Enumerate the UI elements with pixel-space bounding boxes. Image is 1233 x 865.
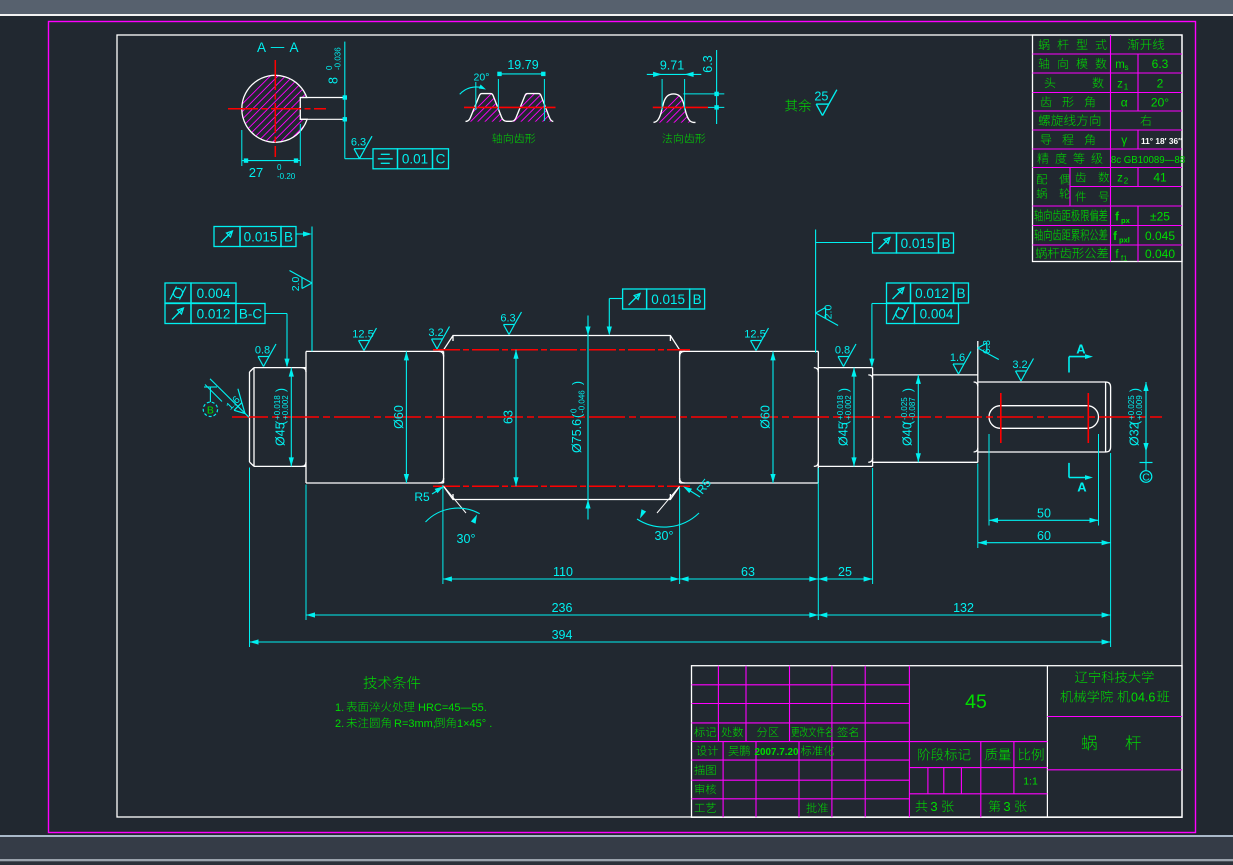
dim 132 (818, 614, 1110, 616)
keyway slot (989, 406, 1099, 429)
svg-text:394: 394 (552, 628, 573, 642)
section mark A bottom (1068, 463, 1070, 478)
dim 9.71 (661, 79, 663, 110)
svg-text:A: A (1077, 480, 1087, 495)
step S1-S2 (305, 351, 307, 483)
svg-text:41: 41 (1153, 171, 1167, 185)
svg-text:0: 0 (277, 163, 282, 172)
surface 0.8 left (255, 344, 276, 367)
dim 63 root (515, 350, 517, 486)
dim Ø75.6 (587, 336, 589, 500)
dim 110 (443, 578, 680, 580)
svg-text:50: 50 (1037, 507, 1051, 521)
svg-text:—: — (271, 39, 285, 54)
surface 6.3 worm (500, 312, 521, 335)
svg-text:20°: 20° (1151, 95, 1169, 109)
svg-text:12.5: 12.5 (744, 329, 765, 341)
svg-text:B: B (941, 236, 950, 251)
svg-text:R5: R5 (414, 490, 430, 504)
shaft section 4 Ø60 right (680, 351, 819, 483)
normal profile label (662, 133, 705, 143)
shaft section 1 left Ø45 (250, 368, 307, 467)
svg-text:C: C (436, 152, 446, 167)
svg-text:Ø75.6: Ø75.6 (570, 419, 584, 453)
svg-text:f: f (1115, 211, 1119, 223)
surface 2.0 left rotated (290, 271, 313, 292)
svg-text:6.3: 6.3 (982, 340, 993, 354)
svg-text:m: m (1115, 59, 1125, 71)
dim Ø60 left (405, 351, 407, 483)
svg-text:3: 3 (930, 799, 937, 814)
section A-A crosshair (228, 108, 326, 110)
datum C (1140, 462, 1153, 464)
leader line step S1S2 (311, 227, 313, 352)
frame runout 0.012 B-C (165, 304, 191, 324)
svg-text:30°: 30° (457, 532, 476, 546)
svg-text:+0.002: +0.002 (281, 395, 290, 420)
svg-text:0.015: 0.015 (901, 236, 935, 251)
svg-text:s: s (1125, 63, 1129, 72)
surface 12.5 left (352, 328, 376, 351)
svg-text:30°: 30° (655, 529, 674, 543)
svg-text:19.79: 19.79 (507, 58, 538, 72)
worm section body Ø75.6 (444, 336, 680, 500)
svg-text:2: 2 (1124, 177, 1129, 186)
shaft section 5 Ø45 right (818, 368, 872, 467)
frame runout 0.012 B keyend (887, 283, 911, 303)
dim 394 (250, 641, 1111, 643)
section mark A top (1068, 357, 1070, 373)
surface 0.8 right (835, 344, 856, 367)
section A-A outline (242, 75, 307, 142)
svg-text:f1: f1 (1121, 253, 1127, 262)
normal tooth outline (654, 94, 696, 123)
normal pitch line (653, 106, 708, 108)
dim 63 len (680, 578, 819, 580)
bottom status area (0, 835, 1233, 837)
svg-text:2.0: 2.0 (290, 277, 302, 292)
svg-text:0.012: 0.012 (197, 306, 231, 321)
svg-text:45: 45 (965, 691, 987, 713)
svg-text:pxl: pxl (1119, 235, 1130, 244)
svg-text:): ) (274, 388, 288, 392)
keyway slot edge lines (300, 97, 345, 99)
svg-text:110: 110 (553, 565, 573, 579)
dim 60 (978, 542, 1111, 544)
surface 6.3 rotated shoulder (978, 340, 999, 360)
svg-text:8: 8 (327, 77, 341, 84)
svg-text:0.8: 0.8 (255, 345, 270, 357)
svg-text:0.012: 0.012 (915, 286, 949, 301)
svg-text:z: z (1117, 173, 1123, 185)
svg-text:): ) (571, 381, 585, 385)
shaft section 6 Ø40 (873, 375, 978, 462)
svg-text:Ø60: Ø60 (392, 405, 406, 429)
dim 19.79 (497, 79, 499, 110)
svg-text:12.5: 12.5 (352, 329, 373, 341)
svg-text:α: α (1121, 95, 1128, 109)
svg-text:HRC=45—55.: HRC=45—55. (418, 702, 487, 714)
parameter table grid (1033, 35, 1183, 262)
svg-text:1×45° .: 1×45° . (457, 718, 492, 730)
svg-text:2.0: 2.0 (823, 305, 835, 320)
svg-text:1.: 1. (335, 702, 344, 714)
svg-text:6.3: 6.3 (701, 55, 715, 72)
svg-text:R=3mm,: R=3mm, (394, 718, 436, 730)
white drawing frame (117, 35, 1182, 817)
keyway cross line 1 (1000, 393, 1002, 443)
svg-text:25: 25 (814, 90, 828, 104)
svg-text:0.8: 0.8 (835, 345, 850, 357)
svg-text:+0.002: +0.002 (844, 395, 853, 420)
svg-text:2.: 2. (335, 718, 344, 730)
svg-text:px: px (1121, 216, 1131, 225)
svg-text:0.040: 0.040 (1145, 247, 1175, 261)
title block grid (692, 666, 1183, 818)
svg-text:0.004: 0.004 (920, 306, 954, 321)
step S5-S6 (872, 368, 874, 467)
frame symmetry 0.01 C (373, 149, 398, 169)
svg-text:3.2: 3.2 (428, 327, 443, 339)
svg-text:B: B (956, 286, 965, 301)
svg-text:z: z (1117, 78, 1123, 90)
step S6-S7 with extension (977, 341, 979, 462)
svg-text:-0.046: -0.046 (578, 390, 587, 413)
svg-text:): ) (837, 388, 851, 392)
frame runout 0.015 B left (214, 227, 240, 247)
svg-text:): ) (1128, 388, 1142, 392)
parameter table text (1039, 39, 1050, 50)
dim 27 (241, 130, 243, 166)
svg-text:0.045: 0.045 (1145, 229, 1175, 243)
worm root line top (433, 349, 690, 351)
frame runout 0.015 B worm (623, 289, 647, 309)
step worm-S4 (679, 351, 681, 483)
svg-text:B: B (693, 292, 702, 307)
svg-text:A: A (257, 40, 266, 55)
svg-text:63: 63 (741, 565, 755, 579)
dim 6.3 normal (683, 93, 724, 95)
svg-text:0.01: 0.01 (402, 152, 428, 167)
svg-text:6.3: 6.3 (1152, 57, 1169, 71)
dim 25 (818, 578, 872, 580)
surface 3.2 keyend (1012, 359, 1033, 382)
axial pitch line (464, 106, 556, 108)
surface 1.6 rotated 45 (223, 389, 254, 420)
svg-text:2007.7.20: 2007.7.20 (755, 747, 799, 758)
qiyu others note (785, 99, 811, 111)
svg-text:0.015: 0.015 (651, 292, 685, 307)
axial tooth profile outline (466, 94, 554, 122)
ext lines bottom dims (442, 485, 444, 584)
step S2-worm (443, 351, 445, 483)
svg-text:Ø60: Ø60 (759, 405, 773, 429)
svg-text:3: 3 (1003, 799, 1010, 814)
svg-text:1: 1 (1124, 82, 1129, 91)
svg-text:-0.20: -0.20 (277, 172, 296, 181)
svg-text:B: B (207, 404, 214, 416)
svg-text:60: 60 (1037, 529, 1051, 543)
svg-text:B: B (284, 229, 293, 244)
tech notes title (364, 676, 421, 689)
svg-text:A: A (1076, 342, 1086, 357)
svg-text:20°: 20° (474, 72, 490, 84)
svg-text:2: 2 (1157, 76, 1164, 90)
shaft section 7 Ø32 keyed end (978, 382, 1111, 452)
keyway cross line 2 (1087, 393, 1089, 443)
svg-text:25: 25 (838, 565, 852, 579)
datum B symbol (203, 402, 217, 416)
dim Ø45 right (853, 368, 855, 467)
svg-text:f: f (1113, 231, 1117, 243)
svg-text:C: C (1142, 472, 1150, 484)
svg-text:-0.087: -0.087 (908, 397, 917, 420)
dim 236 (306, 614, 818, 616)
svg-text:0.015: 0.015 (244, 229, 278, 244)
svg-text:8c GB10089—88: 8c GB10089—88 (1111, 155, 1185, 166)
svg-text:A: A (289, 40, 298, 55)
surface 12.5 right (744, 328, 768, 351)
svg-text:6.3: 6.3 (351, 137, 366, 149)
dim Ø32 (1145, 382, 1147, 452)
top toolbar underline (0, 14, 1233, 16)
worm root line bottom (433, 485, 690, 487)
datum B leader 45deg (210, 379, 249, 417)
axial profile label (492, 133, 535, 143)
dim Ø40 (917, 375, 919, 462)
svg-text:63: 63 (502, 410, 516, 424)
surface 1.6 right (950, 352, 971, 375)
surface 6.3 section (344, 124, 346, 159)
svg-text:1.6: 1.6 (950, 352, 965, 364)
svg-text:±25: ±25 (1150, 209, 1170, 223)
top toolbar bar (0, 0, 1233, 14)
svg-text:04.6: 04.6 (1131, 691, 1155, 705)
step S4-S5 (817, 351, 819, 483)
svg-text:B-C: B-C (239, 306, 263, 321)
svg-text:1:1: 1:1 (1023, 776, 1038, 788)
fillet arcs at steps (302, 368, 307, 372)
svg-text:27: 27 (249, 165, 263, 180)
svg-text:γ: γ (1121, 133, 1127, 147)
svg-text:6.3: 6.3 (500, 313, 515, 325)
main centerline (232, 416, 1162, 418)
svg-text:9.71: 9.71 (660, 59, 684, 73)
svg-text:132: 132 (953, 601, 974, 615)
svg-text:): ) (901, 388, 915, 392)
frame runout 0.015 B right (873, 233, 897, 253)
frame cylindricity 0.004 right (887, 304, 915, 324)
frame cylindricity 0.004 (165, 283, 191, 303)
leader line right step (815, 230, 817, 353)
svg-text:3.2: 3.2 (1012, 359, 1027, 371)
surface 3.2 worm-left (428, 327, 449, 350)
dim 50 (989, 519, 1099, 521)
svg-text:0.004: 0.004 (197, 286, 231, 301)
svg-text:11° 18′ 36″: 11° 18′ 36″ (1141, 136, 1182, 146)
svg-text:-0.036: -0.036 (334, 47, 343, 70)
dim Ø45 left (290, 368, 292, 467)
svg-text:236: 236 (552, 601, 573, 615)
dim Ø60 right (772, 351, 774, 483)
surface 2.0 right rotated (816, 305, 839, 326)
dim 8 keyway width (344, 42, 346, 124)
svg-text:+0.009: +0.009 (1135, 395, 1144, 420)
shaft section 2 Ø60 (306, 351, 444, 483)
